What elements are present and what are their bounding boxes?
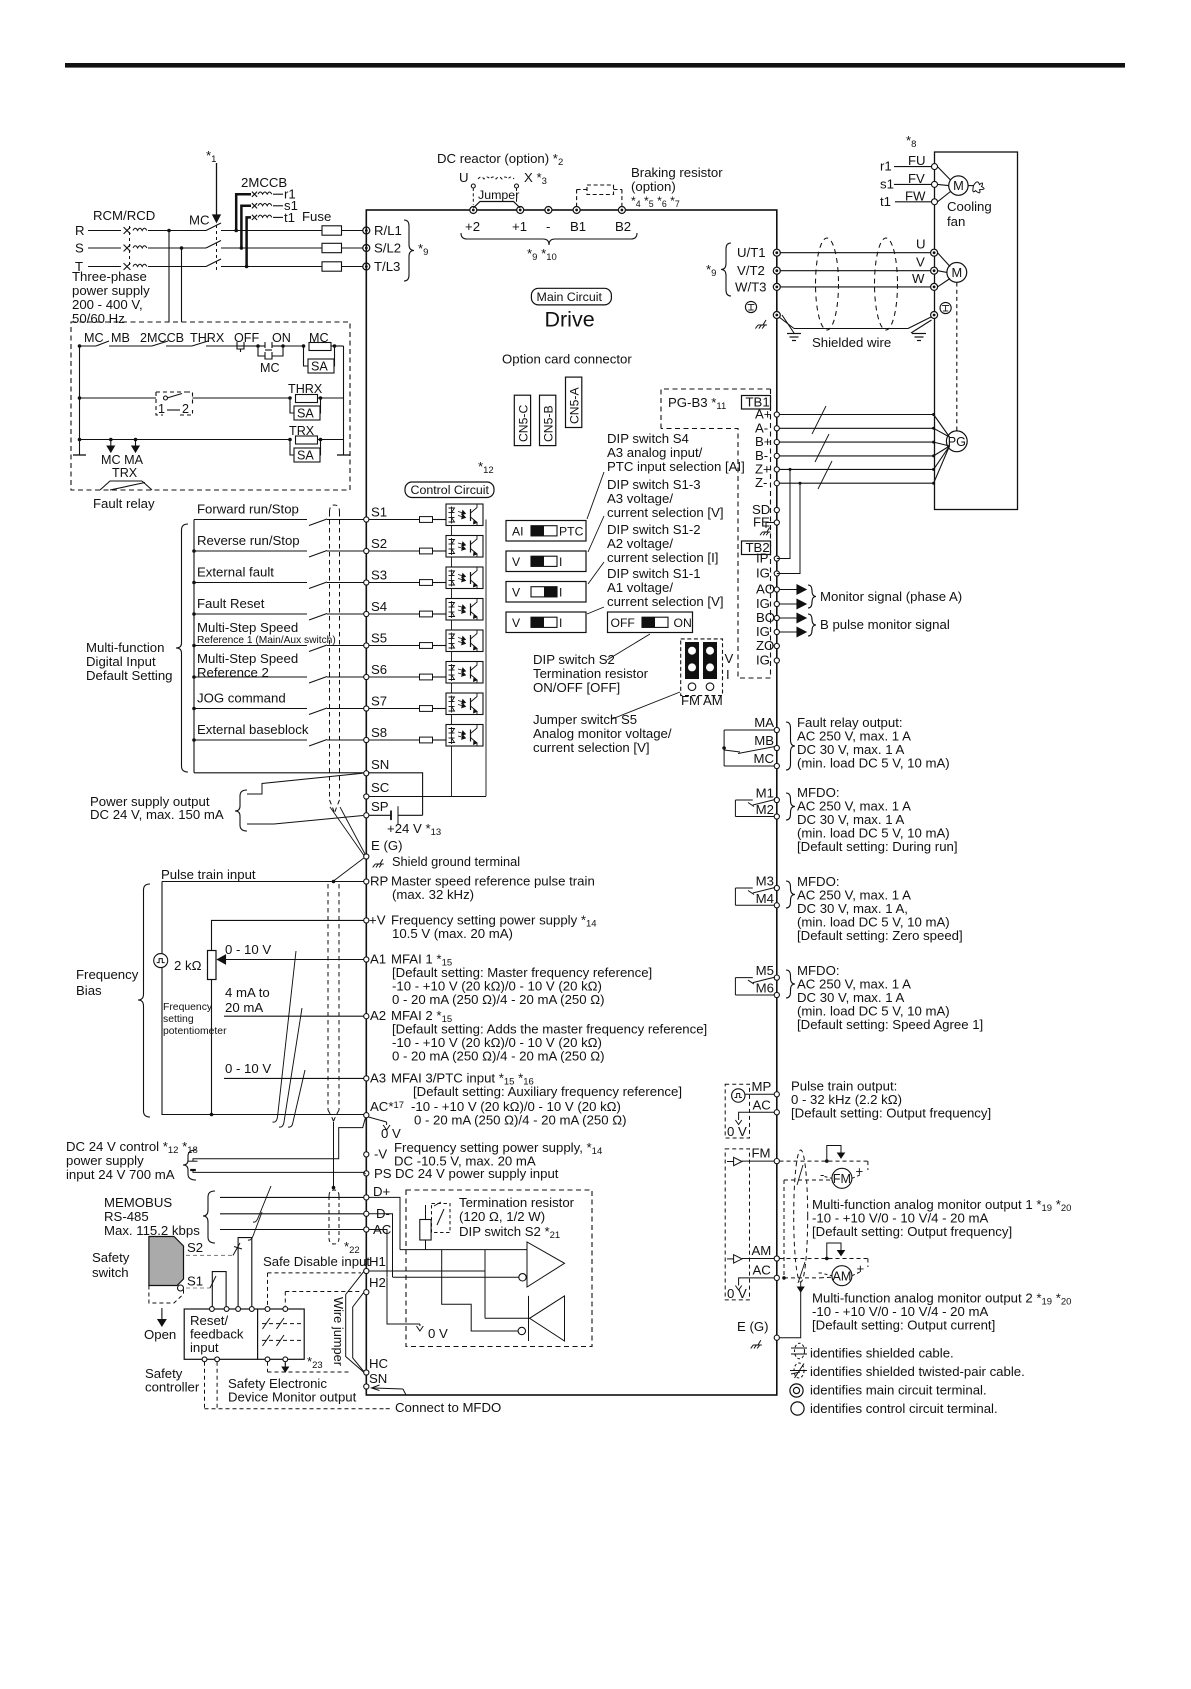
svg-text:S6: S6 [371,662,387,677]
svg-text:[Default setting: Zero speed]: [Default setting: Zero speed] [797,928,963,943]
svg-text:W: W [912,271,925,286]
svg-text:0 - 10 V: 0 - 10 V [225,942,271,957]
svg-text:A2: A2 [370,1008,386,1023]
terminal B2 [618,207,625,214]
input resistor S4 [369,613,419,615]
svg-text:TRX: TRX [112,466,138,480]
svg-text:Termination resistor: Termination resistor [533,666,649,681]
svg-text:RP: RP [370,874,389,889]
svg-text:DIP switch S4: DIP switch S4 [607,431,689,446]
terminal A2 [364,1014,369,1019]
svg-text:[Default setting: During run]: [Default setting: During run] [797,839,958,854]
IP feed wire [777,469,790,558]
svg-text:Frequency: Frequency [163,1002,213,1013]
jumper bar [473,202,520,209]
terminal IG [774,571,779,576]
encoder wire [780,482,934,484]
terminal S2 [364,548,369,553]
terminal MP [774,1092,779,1097]
terminal D+ [364,1195,369,1200]
svg-text:MC: MC [753,751,774,766]
legend shielded cable icon [791,1347,807,1349]
TRX fault relay contact [100,481,142,490]
legend twisted icon [790,1370,807,1372]
svg-text:RS-485: RS-485 [104,1209,149,1224]
svg-text:A1 voltage/: A1 voltage/ [607,580,673,595]
suppressor SA parallel [290,440,294,456]
AM dashed output wire [780,1258,868,1260]
svg-text:ON: ON [674,616,692,630]
svg-text:B+: B+ [755,434,772,449]
terminal A1 [364,957,369,962]
svg-text:A3 analog input/: A3 analog input/ [607,445,703,460]
svg-text:200 - 400 V,: 200 - 400 V, [72,297,143,312]
input wire S3 [194,582,307,584]
svg-text:FM: FM [833,1172,851,1186]
wire phase segment [88,230,121,232]
fan propeller [968,185,973,187]
svg-text:IG: IG [756,596,770,611]
wire phase segment [88,266,121,268]
MC MA takeoff arrows [110,440,112,447]
svg-text:-V: -V [374,1147,387,1162]
svg-text:controller: controller [145,1380,200,1395]
connect wire to MFDO [373,1388,403,1389]
terminal B1 [573,207,580,214]
opto common wire down to SC [451,746,453,797]
label Connect to MFDO [386,1408,392,1410]
svg-text:fan: fan [947,214,965,229]
svg-text:Wire jumper: Wire jumper [331,1297,346,1367]
svg-text:Multi-Step Speed: Multi-Step Speed [197,651,298,666]
svg-text:*23: *23 [307,1354,323,1371]
buffer driver 1 [527,1242,565,1287]
input wire S5 [194,645,307,647]
svg-text:Three-phase: Three-phase [72,269,147,284]
svg-text:2: 2 [182,402,189,416]
svg-text:M6: M6 [756,981,774,996]
wire [148,230,206,232]
ladder right rail [343,346,345,455]
svg-text:JOG command: JOG command [197,691,286,706]
terminal SP [364,813,369,818]
svg-text:*9 *10: *9 *10 [527,246,557,263]
leader lines DIP switches [587,472,604,519]
svg-text:FV: FV [908,171,925,186]
svg-text:M2: M2 [756,802,774,817]
rung 2 wire [80,397,157,399]
input resistor S6 [369,676,419,678]
node [192,675,196,679]
svg-text:Forward run/Stop: Forward run/Stop [197,502,299,517]
svg-text:(min. load DC 5 V, 10 mA): (min. load DC 5 V, 10 mA) [797,756,950,771]
fan terminals [932,164,938,170]
svg-text:Jumper: Jumper [478,188,519,202]
terminal AC mp [774,1110,779,1115]
svg-text:FM: FM [752,1146,771,1161]
svg-text:R: R [75,223,85,238]
terminal IG [774,629,779,634]
terminal H1 [364,1268,369,1273]
box bottom terminals [202,1357,207,1362]
FM return dashed [784,1179,832,1181]
wire [273,216,283,218]
terminal V/T2 [773,267,780,274]
termination DIP switch S2 dashed [432,1204,451,1233]
svg-text:OFF: OFF [611,616,635,630]
FM AM dashed box [725,1149,749,1300]
svg-text:B pulse monitor signal: B pulse monitor signal [820,617,950,632]
opto chain wire [451,557,453,567]
input wire S7 [194,708,307,710]
svg-text:RCM/RCD: RCM/RCD [93,208,155,223]
svg-text:DIP switch S1-1: DIP switch S1-1 [607,566,701,581]
svg-text:FM AM: FM AM [681,693,723,708]
label Main Circuit [531,288,611,305]
svg-text:MB: MB [754,733,774,748]
switch blade S4 [309,614,327,621]
svg-text:Cooling: Cooling [947,199,992,214]
switch blade S8 [309,740,327,747]
junction node [245,265,249,269]
jumper S5 open circles [688,683,696,691]
svg-text:X *3: X *3 [524,170,547,187]
twisted pair slashes on encoder wires [812,406,826,434]
motor wires U V W [777,252,931,254]
2MCCB breaker contact [252,215,257,220]
node [192,549,196,553]
buffer 2 wires [485,1317,530,1319]
optocoupler S2 [446,536,483,558]
svg-text:DC reactor (option) *2: DC reactor (option) *2 [437,151,563,168]
node [192,581,196,585]
termination resistor [420,1220,431,1241]
svg-text:THRX: THRX [190,331,225,345]
AC wire [212,1114,365,1116]
buffer driver 2 [530,1296,565,1341]
svg-text:W/T3: W/T3 [735,279,767,294]
svg-text:identifies main circuit termin: identifies main circuit terminal. [810,1383,987,1398]
wire [273,193,283,195]
input wire S2 [194,550,307,552]
ground stake left [787,333,801,335]
wire [273,205,283,207]
svg-text:U: U [916,237,926,252]
safe disable dashed box [406,1190,592,1347]
drive PE terminal symbol [745,301,756,312]
svg-text:MC: MC [189,213,210,228]
FM driver triangle [734,1157,742,1165]
shield tube digital inputs [330,505,340,512]
brace *9 input terminals [404,220,414,281]
svg-text:current selection [V]: current selection [V] [607,505,724,520]
MC linkage dashed [216,219,218,272]
svg-text:-: - [818,1265,822,1280]
svg-text:PG-B3 *11: PG-B3 *11 [668,395,726,412]
ON pushbutton NO [258,345,265,347]
terminal IG [774,658,779,663]
svg-text:SN: SN [371,757,389,772]
svg-text:Connect to MFDO: Connect to MFDO [395,1400,501,1415]
svg-text:0 - 20 mA (250 Ω)/4 - 20 mA (2: 0 - 20 mA (250 Ω)/4 - 20 mA (250 Ω) [392,992,605,1007]
safety switch body [149,1237,184,1286]
fuse F [322,243,342,252]
svg-text:MC: MC [84,331,104,345]
svg-text:Digital Input: Digital Input [86,654,156,669]
optocoupler S7 [446,693,483,715]
buffer 1 bubble [519,1274,526,1281]
shield ellipse FM AM [794,1150,808,1282]
terminal S3 [364,580,369,585]
svg-text:IG: IG [756,653,770,668]
A3 wire [224,1077,364,1079]
RCM/RCD linkage dashed [129,226,131,268]
label TB1 [742,396,771,410]
potentiometer body [208,951,217,980]
terminal A- [774,426,779,431]
terminal S4 [364,611,369,616]
svg-text:10.5 V (max. 20 mA): 10.5 V (max. 20 mA) [392,926,513,941]
svg-text:Reference 2: Reference 2 [197,665,269,680]
svg-text:50/60 Hz: 50/60 Hz [72,311,125,326]
terminal S7 [364,706,369,711]
svg-text:s1: s1 [880,176,894,191]
switch blade S2 [309,551,327,558]
opto chain wire [451,526,453,536]
terminal B+ [774,440,779,445]
shield drain to E(G) [330,807,364,856]
D+ wire [220,1196,364,1198]
svg-text:Pulse train input: Pulse train input [161,867,256,882]
svg-text:E (G): E (G) [737,1319,769,1334]
svg-text:Fault relay: Fault relay [93,496,155,511]
svg-text:[Default setting: Output frequ: [Default setting: Output frequency] [812,1224,1012,1239]
DC24V control battery [189,1160,198,1162]
terminal FM [774,1159,779,1164]
terminal E (G) [364,854,369,859]
svg-text:Reverse run/Stop: Reverse run/Stop [197,533,300,548]
leader to jumper S5 text [612,692,680,719]
svg-text:M1: M1 [756,786,774,801]
terminal E (G) right [774,1335,779,1340]
svg-text:PS: PS [374,1166,392,1181]
svg-text:PG: PG [948,435,966,449]
FM meter [867,1161,869,1170]
power supply output leads [247,773,363,794]
wire [221,230,322,232]
svg-text:0 - 20 mA (250 Ω)/4 - 20 mA (2: 0 - 20 mA (250 Ω)/4 - 20 mA (250 Ω) [414,1113,627,1128]
svg-text:input 24 V 700 mA: input 24 V 700 mA [66,1167,175,1182]
terminal AM [774,1256,779,1261]
svg-text:S3: S3 [371,568,387,583]
D- wire [220,1213,364,1215]
opto chain wire [451,589,453,599]
jumper switch S5 block [681,639,723,696]
DIP switch S2 OFF/ON [608,612,693,633]
pot bottom wire [211,980,213,1115]
svg-text:0 - 10 V: 0 - 10 V [225,1061,271,1076]
+24V battery internal [369,814,391,816]
svg-text:Max. 115.2 kbps: Max. 115.2 kbps [104,1223,200,1238]
svg-text:Termination resistor: Termination resistor [459,1195,575,1210]
encoder wire [780,455,934,457]
motor ground terminal [931,312,938,319]
svg-text:Z-: Z- [755,475,767,490]
terminal AC am [774,1275,779,1280]
svg-text:Option card connector: Option card connector [502,352,632,367]
svg-text:Monitor signal (phase A): Monitor signal (phase A) [820,589,962,604]
terminal AO [774,587,779,592]
terminal -V [364,1152,369,1157]
FE ground wire [766,523,774,529]
svg-text:potentiometer: potentiometer [163,1026,227,1037]
svg-text:M: M [953,178,964,193]
monitor output arrows BO IG [780,617,798,619]
brace DC24V control [183,1150,196,1180]
wire [283,345,303,347]
2MCCB breaker contact [252,203,257,208]
svg-text:SN: SN [369,1371,387,1386]
svg-text:4 mA to: 4 mA to [225,985,270,1000]
monitor output arrows AO IG [780,589,798,591]
terminal FE [774,520,779,525]
DIP switch S1-3 V/I [506,551,586,572]
S2 dashed wire [186,1254,233,1256]
svg-text:Drive: Drive [545,308,595,332]
svg-text:Safety: Safety [92,1250,130,1265]
page top rule [65,63,1125,68]
terminal T/L3 [363,263,370,270]
AC am wire [739,1278,774,1285]
svg-text:setting: setting [163,1014,194,1025]
svg-text:Default Setting: Default Setting [86,668,173,683]
opto chain wire [451,652,453,662]
svg-text:+V: +V [369,912,386,927]
svg-text:I: I [559,555,562,569]
2MCCB feeder bold wire [241,206,251,248]
svg-text:A-: A- [755,420,768,435]
svg-text:+2: +2 [465,219,480,234]
svg-text:V/T2: V/T2 [737,263,765,278]
wiper arrow A1 [226,959,365,961]
open arrow [161,1308,163,1320]
svg-text:current selection [V]: current selection [V] [533,740,650,755]
ladder left rail [79,346,81,455]
reactor dashed leads [472,188,474,205]
svg-text:Device Monitor output: Device Monitor output [228,1390,357,1405]
svg-text:I: I [559,586,562,600]
svg-text:ZO: ZO [756,638,774,653]
svg-text:0 V: 0 V [727,1124,747,1139]
svg-text:Fuse: Fuse [302,209,331,224]
shield tube memobus [329,1190,339,1196]
svg-text:-: - [546,219,550,234]
rung 1 wire and contacts [80,345,97,347]
svg-text:B2: B2 [615,219,631,234]
terminal PS [364,1171,369,1176]
svg-text:HC: HC [369,1356,389,1371]
svg-text:Control Circuit: Control Circuit [411,483,490,497]
suppressor SA parallel [290,398,294,413]
connector CN5-A [566,377,582,427]
svg-text:A2 voltage/: A2 voltage/ [607,536,673,551]
terminal minus [545,207,552,214]
RP wire [162,881,364,883]
svg-text:A3 voltage/: A3 voltage/ [607,491,673,506]
svg-text:S: S [75,241,84,256]
input wire S4 [194,613,307,615]
svg-text:+1: +1 [512,219,527,234]
legend main terminal icon [790,1384,803,1397]
svg-text:AM: AM [752,1243,772,1258]
input wire S6 [194,676,307,678]
svg-text:*9: *9 [418,241,428,258]
svg-text:Shielded wire: Shielded wire [812,335,891,350]
svg-text:0 V: 0 V [428,1326,448,1341]
svg-text:t1: t1 [284,210,295,225]
opto chain wire [451,620,453,630]
svg-text:AC: AC [753,1263,772,1278]
svg-text:power supply: power supply [66,1153,144,1168]
0V branch [387,1277,420,1324]
encoder fan-in wires to PG [934,415,950,438]
twisted slashes FM AM [797,1165,803,1185]
svg-text:E (G): E (G) [371,838,403,853]
AC mp wire [739,1112,774,1119]
svg-text:V: V [725,651,734,666]
suppressor SA parallel [304,346,309,366]
svg-text:S5: S5 [371,631,387,646]
AM driver triangle [734,1255,742,1263]
motor PE symbol [940,302,951,313]
terminal S1 [364,517,369,522]
svg-text:Analog monitor voltage/: Analog monitor voltage/ [533,726,672,741]
optocoupler S3 [446,567,483,589]
svg-text:FU: FU [908,153,926,168]
svg-text:0 V: 0 V [381,1126,401,1141]
wire loop B [212,1272,226,1309]
junction node [240,246,244,250]
switch blade S7 [309,708,327,715]
svg-text:PTC: PTC [559,525,584,539]
svg-text:(option): (option) [631,179,676,194]
svg-text:A3: A3 [370,1070,386,1085]
optocoupler S6 [446,662,483,684]
label DIP switch S2 termination [607,634,650,660]
svg-text:Reference 1 (Main/Aux switch): Reference 1 (Main/Aux switch) [197,635,336,646]
fan feed wires [894,166,931,168]
brace fault relay output [786,722,795,770]
encoder PG circle [946,431,967,452]
svg-text:SA: SA [311,360,328,374]
input resistor S3 [369,582,419,584]
opto chain wire [451,715,453,725]
svg-text:DC 24 V, max. 150 mA: DC 24 V, max. 150 mA [90,807,224,822]
wire [148,266,206,268]
svg-text:M4: M4 [756,891,774,906]
svg-text:IG: IG [756,566,770,581]
optocoupler S1 [446,504,483,526]
input resistor S2 [369,550,419,552]
svg-text:M: M [951,265,962,280]
memobus twisted slashes [253,1186,271,1222]
MFDO M1 M2 [774,797,779,802]
svg-text:S2: S2 [187,1240,203,1255]
junction node [234,229,238,233]
svg-text:MB: MB [111,331,130,345]
node [192,707,196,711]
svg-text:R/L1: R/L1 [374,223,402,238]
